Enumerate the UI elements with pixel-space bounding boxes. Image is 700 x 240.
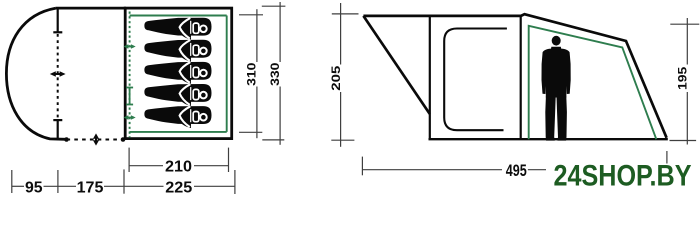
inner floor green rectangle bottom edge xyxy=(130,131,227,133)
inner floor green rectangle top edge xyxy=(130,15,227,17)
side view top line with peak xyxy=(363,14,666,138)
horizontal double arrow on centre line xyxy=(50,71,66,77)
vestibule dashed centre line xyxy=(57,34,59,119)
threshold right dot xyxy=(121,137,126,142)
dimension 310 extension bottom xyxy=(239,131,262,133)
dimension 95-175-225 tick 1 xyxy=(11,170,13,193)
svg-text:195: 195 xyxy=(675,67,689,90)
dimension 330 extension top xyxy=(262,5,286,7)
svg-text:205: 205 xyxy=(329,66,343,91)
svg-text:175: 175 xyxy=(77,179,104,195)
side view ground line xyxy=(429,138,668,140)
sleeping bag 5 xyxy=(144,106,211,128)
sleeping bag 2 xyxy=(144,40,211,62)
dimension 330 line xyxy=(279,2,281,145)
svg-text:24SHOP.BY: 24SHOP.BY xyxy=(554,159,692,192)
dimension 205 line xyxy=(340,3,342,147)
side view inner wall vertical xyxy=(429,16,431,139)
svg-text:330: 330 xyxy=(268,62,282,86)
vertical double arrow on threshold xyxy=(93,133,99,145)
green horizontal double arrow upper xyxy=(124,44,136,49)
vestibule pole solid bottom segment xyxy=(57,120,59,139)
svg-text:95: 95 xyxy=(25,179,43,195)
svg-text:495: 495 xyxy=(506,161,527,180)
dimension 210 tick right xyxy=(228,148,230,172)
side view door panel left vertical xyxy=(520,16,522,139)
dimension 195 line xyxy=(686,18,688,145)
dimension 195 tick bottom xyxy=(670,140,697,142)
dimension 95-175-225 tick 2 xyxy=(57,170,59,193)
dimension 210 tick left xyxy=(128,148,130,172)
middle room rounded door outline xyxy=(444,29,507,131)
tent top-view left arc wall xyxy=(6,8,66,139)
green I-beam marker xyxy=(126,88,133,105)
dimension 330 extension bottom xyxy=(262,139,284,141)
bottom dashed threshold line xyxy=(67,138,124,140)
inner floor green rectangle right edge xyxy=(226,16,228,132)
dimension 210 line xyxy=(129,165,228,167)
pole T-bar top xyxy=(53,31,62,33)
sleeping bag 3 xyxy=(144,62,211,84)
tent top-view inner room rectangle xyxy=(125,8,232,139)
dimension 205 tick top xyxy=(332,13,359,15)
svg-text:210: 210 xyxy=(165,159,192,176)
dimension 205 tick bottom xyxy=(331,139,354,141)
svg-text:310: 310 xyxy=(245,62,259,86)
inner floor green dashed left edge xyxy=(129,12,131,138)
side view left slant edge xyxy=(363,16,429,114)
vestibule pole solid top segment xyxy=(57,9,59,32)
tent top-view top wall line xyxy=(56,7,127,10)
dimension 495 tick right xyxy=(666,151,668,164)
dimension bottom row line segments xyxy=(12,185,235,187)
sleeping bag 4 xyxy=(144,84,211,106)
dimension 310 extension top xyxy=(239,14,263,16)
green door trim xyxy=(529,26,657,139)
pole T-bar bottom xyxy=(53,119,62,121)
man silhouette xyxy=(542,36,571,141)
green horizontal double arrow lower xyxy=(124,115,136,120)
dimension 310 line xyxy=(256,9,258,138)
sleeping bag 1 xyxy=(144,18,211,40)
dimension 195 tick top xyxy=(670,23,699,25)
threshold left dot xyxy=(64,137,69,142)
dimension 495 line xyxy=(362,169,546,171)
dimension 495 tick left xyxy=(361,157,363,176)
dimension 95-175-225 tick 4 xyxy=(234,170,236,194)
dimension 95-175-225 tick 3 xyxy=(123,169,125,193)
svg-text:225: 225 xyxy=(165,179,192,195)
